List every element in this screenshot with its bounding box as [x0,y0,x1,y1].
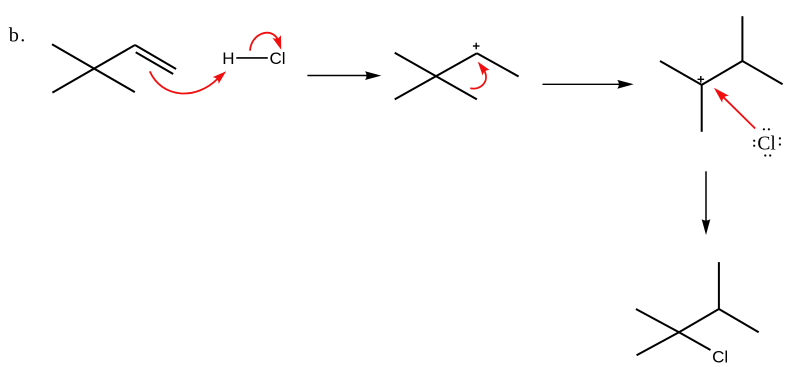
svg-text:Cl: Cl [757,133,776,154]
svg-text:Cl: Cl [269,49,285,68]
svg-text:H: H [222,49,234,68]
svg-text:Cl: Cl [712,347,728,366]
svg-text:b.: b. [9,25,27,47]
